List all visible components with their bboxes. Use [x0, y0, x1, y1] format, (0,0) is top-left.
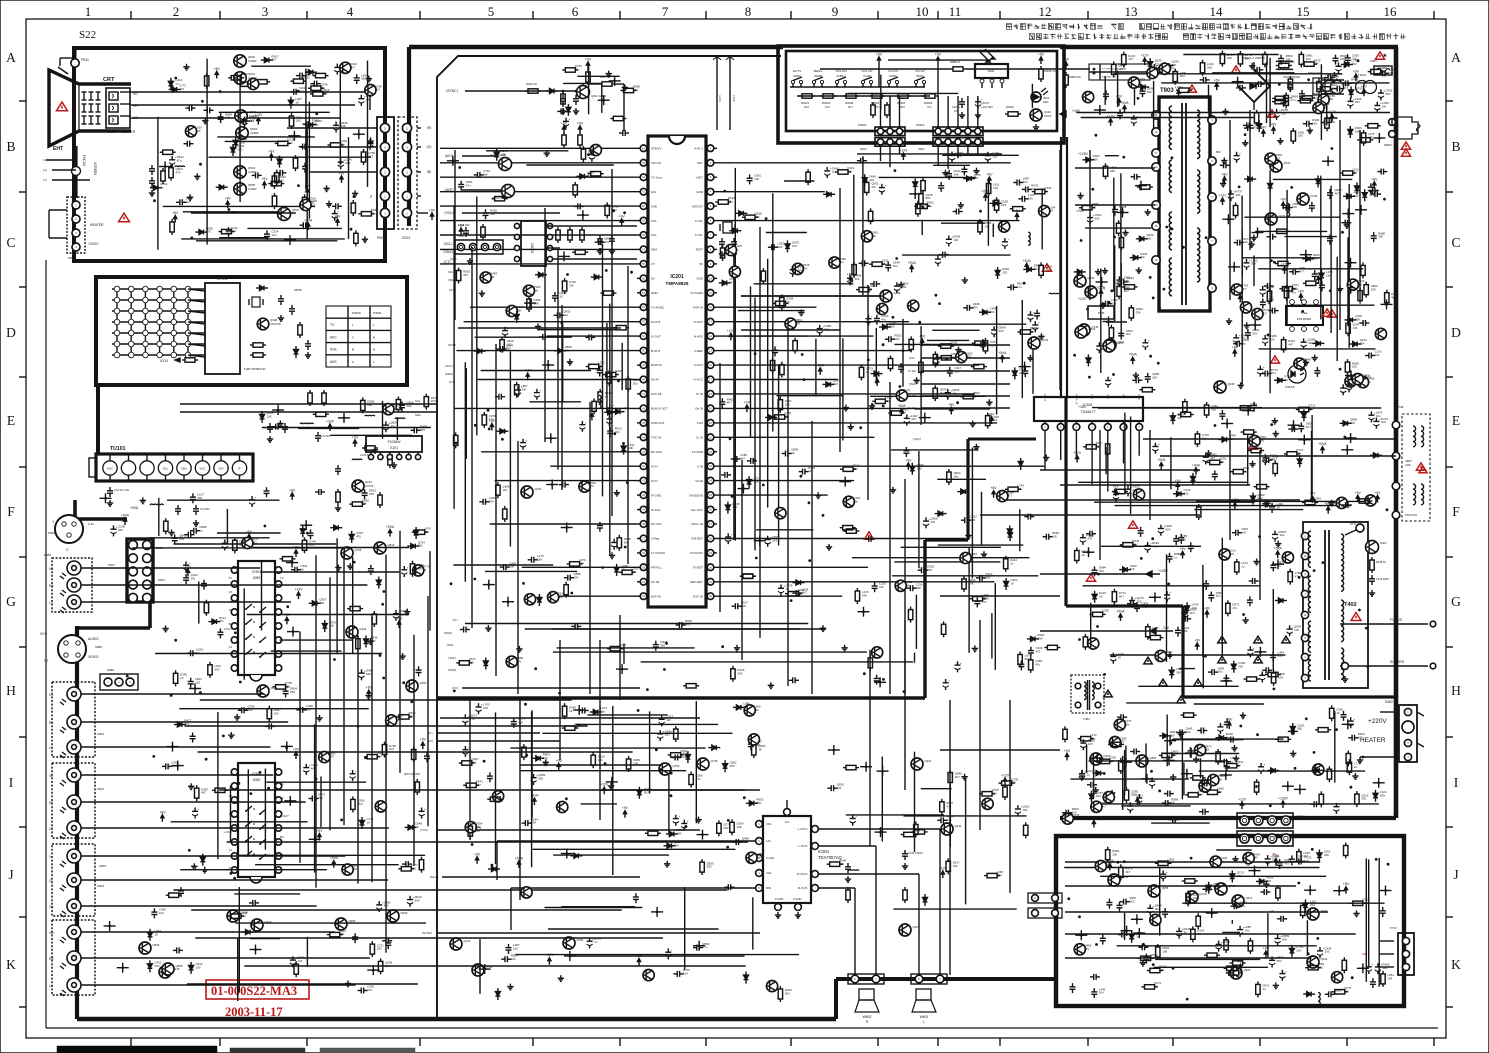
svg-text:2K2: 2K2	[772, 538, 778, 542]
svg-text:+5V: +5V	[1374, 491, 1381, 495]
supply	[1160, 465, 1162, 470]
svg-text:47u: 47u	[1232, 606, 1237, 610]
svg-text:25V: 25V	[1157, 71, 1162, 75]
speaker connector P603	[848, 974, 884, 984]
svg-text:C: C	[352, 335, 355, 339]
resistor	[361, 212, 371, 216]
junction	[1349, 261, 1352, 264]
supply	[1373, 184, 1375, 189]
aux connector pair 1	[1028, 893, 1062, 903]
svg-text:50V: 50V	[489, 499, 494, 503]
supply	[337, 221, 339, 226]
ground	[1266, 500, 1268, 503]
wire	[750, 286, 752, 437]
svg-text:1u: 1u	[1368, 380, 1372, 384]
wire	[987, 178, 989, 246]
svg-text:SDA: SDA	[651, 248, 657, 252]
wire	[1196, 500, 1373, 502]
transistor	[1347, 279, 1358, 290]
wire	[852, 557, 1030, 559]
IC201 pin 43	[640, 449, 647, 456]
svg-text:1W: 1W	[974, 176, 979, 180]
capacitor	[1203, 456, 1209, 458]
capacitor	[299, 73, 301, 79]
svg-text:+9V: +9V	[1180, 547, 1187, 551]
capacitor	[1374, 191, 1376, 197]
wire	[743, 335, 873, 337]
svg-text:4K7: 4K7	[1101, 804, 1107, 808]
svg-text:33K: 33K	[1371, 287, 1376, 291]
diode D448	[294, 350, 299, 355]
capacitor	[817, 328, 823, 330]
ground	[326, 185, 328, 188]
capacitor	[725, 536, 731, 538]
capacitor	[557, 312, 559, 318]
svg-text:33K: 33K	[1314, 62, 1319, 66]
IC201 pin 56	[640, 261, 647, 268]
junction	[563, 255, 566, 258]
svg-text:100: 100	[1358, 735, 1363, 739]
svg-text:103: 103	[804, 105, 809, 109]
wire	[886, 323, 1026, 325]
svg-text:2K2: 2K2	[598, 364, 604, 368]
svg-text:1u: 1u	[735, 248, 739, 252]
svg-text:1u: 1u	[1241, 565, 1245, 569]
wire	[481, 370, 591, 372]
wire	[754, 298, 756, 551]
capacitor	[1340, 387, 1346, 389]
svg-text:G: G	[1451, 594, 1461, 609]
wire	[206, 59, 208, 245]
switch CH DN	[887, 80, 890, 83]
diode	[1139, 236, 1144, 241]
svg-text:103: 103	[1088, 742, 1093, 746]
svg-text:100: 100	[507, 342, 512, 346]
svg-text:L-OUT+: L-OUT+	[798, 827, 809, 831]
resistor	[933, 354, 937, 364]
svg-text:10u: 10u	[1382, 966, 1387, 970]
resistor	[1122, 55, 1126, 65]
capacitor	[567, 575, 569, 581]
svg-text:25V: 25V	[318, 796, 323, 800]
ground	[972, 421, 974, 424]
capacitor	[949, 154, 955, 156]
wire	[937, 478, 986, 480]
svg-text:SC 5F: SC 5F	[651, 580, 660, 584]
svg-text:+: +	[569, 117, 571, 121]
resistor	[1150, 635, 1160, 639]
ground	[487, 625, 489, 628]
svg-text:⟨TVC⟩: ⟨TVC⟩	[420, 828, 428, 832]
junction	[551, 483, 554, 486]
svg-text:SCREEN: SCREEN	[1390, 660, 1405, 664]
resistor	[974, 364, 984, 368]
diode	[1231, 664, 1236, 669]
P3904 pin	[887, 128, 893, 134]
resistor	[855, 591, 859, 601]
IC201 pin 33	[640, 593, 647, 600]
junction	[1225, 774, 1228, 777]
IC206 pin	[514, 223, 519, 228]
capacitor	[1110, 656, 1116, 658]
svg-text:P: P	[918, 977, 920, 981]
signal return bus	[437, 696, 925, 699]
resistor	[1115, 489, 1125, 493]
svg-text:10u: 10u	[1376, 414, 1381, 418]
svg-text:47u: 47u	[696, 777, 701, 781]
junction	[759, 539, 762, 542]
wire	[1078, 481, 1247, 483]
IC201 pin 26	[707, 506, 714, 513]
resistor	[570, 562, 580, 566]
resistor	[302, 197, 306, 207]
resistor	[986, 416, 990, 426]
capacitor	[1245, 332, 1251, 334]
svg-text:1u: 1u	[1044, 189, 1048, 193]
diode	[1027, 267, 1032, 272]
svg-text:+12V: +12V	[600, 783, 609, 787]
svg-text:560: 560	[1357, 282, 1362, 286]
resistor	[350, 606, 360, 610]
grid tick	[999, 11, 1001, 19]
svg-text:V3: V3	[229, 590, 233, 594]
capacitor	[333, 124, 339, 126]
resistor	[1140, 185, 1150, 189]
svg-text:4K7: 4K7	[950, 344, 956, 348]
svg-text:+8V: +8V	[304, 184, 311, 188]
junction	[1023, 365, 1026, 368]
wire	[733, 254, 735, 540]
svg-text:⟨SCL⟩: ⟨SCL⟩	[443, 242, 452, 246]
ground	[1045, 455, 1047, 458]
resistor	[215, 788, 225, 792]
svg-text:10u: 10u	[563, 313, 568, 317]
junction	[1100, 281, 1103, 284]
svg-text:50V: 50V	[674, 843, 679, 847]
svg-text:1K: 1K	[869, 287, 873, 291]
vert IC feed bus	[968, 438, 1036, 441]
svg-text:50V: 50V	[1251, 262, 1256, 266]
svg-text:103: 103	[825, 105, 830, 109]
IC901 body	[238, 561, 275, 675]
tuner pin stubs	[110, 455, 240, 461]
ground	[1223, 158, 1225, 161]
svg-text:+8V: +8V	[1221, 172, 1228, 176]
ground	[624, 84, 626, 87]
IC902 pin left	[231, 839, 237, 845]
resistor	[1093, 612, 1103, 616]
capacitor	[1341, 714, 1347, 716]
svg-text:33K: 33K	[632, 570, 637, 574]
cap C902A	[1287, 84, 1293, 86]
resistor	[562, 281, 566, 291]
resistor	[975, 341, 985, 345]
junction	[1303, 438, 1306, 441]
svg-text:L3SA: L3SA	[732, 95, 736, 102]
capacitor	[947, 370, 953, 372]
transistor	[1352, 374, 1363, 385]
cap C117	[335, 468, 341, 470]
svg-text:100: 100	[917, 466, 922, 470]
IC201 pin 19	[707, 405, 714, 412]
svg-text:2K2: 2K2	[471, 761, 477, 765]
capacitor	[1378, 92, 1384, 94]
+5V ir	[937, 59, 939, 64]
res R989	[1064, 75, 1068, 85]
ground	[481, 290, 483, 293]
svg-text:58V: 58V	[1216, 150, 1221, 154]
svg-text:1V: 1V	[1362, 952, 1366, 956]
wire	[219, 237, 268, 239]
S702 upper row	[1237, 813, 1293, 828]
inductor	[599, 395, 601, 399]
svg-text:+: +	[884, 183, 886, 187]
svg-text:L3: L3	[49, 601, 53, 605]
svg-text:560: 560	[660, 643, 665, 647]
svg-text:11: 11	[949, 4, 962, 19]
svg-text:DRMC: DRMC	[1384, 143, 1392, 147]
svg-text:⟨AV1⟩: ⟨AV1⟩	[448, 656, 456, 660]
IC901 pin right	[275, 623, 281, 629]
supply	[1262, 132, 1264, 137]
diode	[312, 601, 317, 606]
anode bracket	[58, 67, 68, 74]
IC201 pin 45	[640, 420, 647, 427]
warning triangle	[1042, 264, 1051, 271]
svg-text:+: +	[612, 404, 614, 408]
capacitor	[241, 707, 243, 713]
capacitor	[598, 239, 600, 245]
svg-text:C1071: C1071	[952, 105, 960, 109]
IC902 pin right	[275, 797, 281, 803]
capacitor	[1113, 494, 1119, 496]
wire ee1	[546, 225, 637, 227]
resistor	[222, 229, 232, 233]
IC902 pin left	[231, 783, 237, 789]
diode	[1004, 582, 1009, 587]
capacitor	[1348, 720, 1354, 722]
resistor	[581, 149, 585, 159]
gnd tun2	[195, 520, 197, 523]
svg-text:H-AFD: H-AFD	[694, 334, 704, 338]
svg-text:4K7: 4K7	[377, 754, 383, 758]
ground	[1228, 318, 1230, 321]
svg-text:104: 104	[588, 152, 593, 156]
resistor	[1364, 285, 1368, 295]
S201 pin	[402, 208, 411, 217]
transistor	[1282, 552, 1293, 563]
inductor	[1028, 232, 1030, 236]
capacitor	[1045, 534, 1047, 540]
wire	[526, 164, 613, 166]
supply	[333, 863, 335, 868]
resistor	[482, 415, 486, 425]
transistor	[548, 592, 559, 603]
diode	[364, 639, 369, 644]
svg-text:1u: 1u	[615, 372, 619, 376]
connector S201	[398, 117, 417, 229]
svg-text:100: 100	[1046, 268, 1051, 272]
capacitor	[424, 755, 430, 757]
diode	[1141, 85, 1146, 90]
svg-text:10K: 10K	[362, 502, 367, 506]
svg-text:D403: D403	[1380, 541, 1387, 545]
svg-text:P501: P501	[377, 236, 385, 240]
transistor	[300, 199, 311, 210]
wire	[243, 588, 245, 680]
svg-text:I: I	[9, 775, 14, 790]
junction	[1121, 211, 1124, 214]
svg-text:TEST: TEST	[695, 248, 703, 252]
wire	[458, 327, 621, 329]
svg-text:+: +	[1148, 339, 1150, 343]
svg-text:S902: S902	[97, 787, 104, 791]
ground	[1104, 268, 1106, 271]
transistor	[1109, 737, 1120, 748]
svg-text:VIDEO: VIDEO	[88, 655, 99, 659]
capacitor	[1236, 240, 1238, 246]
svg-text:3CB5-1: 3CB5-1	[836, 74, 846, 78]
diode D445	[260, 286, 265, 291]
diode	[1268, 184, 1273, 189]
wire	[1114, 73, 1343, 75]
tuner pin SCL	[158, 461, 172, 475]
svg-text:25V: 25V	[537, 557, 542, 561]
capacitor	[765, 539, 771, 541]
wire cluster mid right mid	[869, 300, 1045, 429]
IC201 pin 58	[640, 232, 647, 239]
svg-text:47u 50V: 47u 50V	[321, 434, 331, 438]
wire	[601, 85, 603, 113]
svg-text:4K7: 4K7	[756, 855, 762, 859]
capacitor	[482, 499, 484, 505]
svg-text:K: K	[1451, 957, 1461, 972]
res R204	[528, 89, 538, 93]
diode	[608, 410, 613, 415]
junction	[1227, 218, 1230, 221]
transistor Q607	[1270, 160, 1282, 172]
svg-text:C: C	[6, 235, 15, 250]
resistor	[316, 73, 326, 77]
resistor	[591, 172, 601, 176]
thermistor RT901	[1313, 78, 1325, 95]
svg-text:+220V: +220V	[1368, 718, 1387, 725]
svg-text:P904: P904	[158, 578, 165, 582]
svg-text:1K: 1K	[1197, 932, 1201, 936]
diode	[883, 325, 888, 330]
supply	[1026, 265, 1028, 270]
svg-text:H-VCC: H-VCC	[694, 378, 704, 382]
svg-text:+: +	[468, 745, 470, 749]
svg-text:1K: 1K	[415, 825, 419, 829]
cap C101	[107, 490, 113, 492]
IC501 pin 5	[1104, 424, 1111, 431]
IC902 pin right	[275, 853, 281, 859]
warning triangle black	[1159, 679, 1167, 686]
junction	[1226, 422, 1229, 425]
cathode KB	[109, 116, 118, 124]
svg-text:1W: 1W	[1264, 82, 1269, 86]
svg-text:P-GND: P-GND	[793, 897, 801, 901]
supply	[1076, 458, 1078, 463]
vert coil	[1413, 426, 1416, 431]
svg-text:G: G	[6, 594, 16, 609]
svg-text:+12V: +12V	[939, 867, 948, 871]
resistor	[1013, 207, 1023, 211]
IC901 pin left	[231, 567, 237, 573]
diode	[219, 185, 224, 190]
ground	[1305, 359, 1307, 362]
svg-text:104: 104	[297, 959, 302, 963]
junction	[602, 99, 605, 102]
svg-text:1: 1	[373, 360, 375, 364]
wire	[1106, 321, 1127, 323]
svg-text:S22: S22	[79, 29, 96, 41]
svg-text:+9V: +9V	[622, 806, 629, 810]
capacitor	[302, 222, 304, 228]
svg-text:3+PV: 3+PV	[718, 95, 722, 102]
junction	[1305, 253, 1308, 256]
svg-text:3300A: 3300A	[793, 74, 801, 78]
svg-text:IF IN: IF IN	[651, 464, 658, 468]
IC901 pin left	[231, 609, 237, 615]
svg-text:KSC5: KSC5	[1044, 114, 1052, 118]
svg-text:47u: 47u	[1213, 885, 1218, 889]
svg-text:560: 560	[361, 77, 366, 81]
capacitor	[945, 392, 951, 394]
capacitor	[515, 389, 521, 391]
svg-text:1u: 1u	[832, 170, 836, 174]
svg-text:4K7: 4K7	[740, 457, 746, 461]
supply	[1115, 491, 1117, 496]
IC206 24C08 eeprom	[521, 221, 546, 266]
junction	[1256, 231, 1259, 234]
svg-text:+5VA: +5VA	[897, 404, 906, 408]
svg-text:P531: P531	[81, 58, 89, 62]
diode	[264, 58, 269, 63]
svg-text:Q253: Q253	[535, 487, 542, 491]
svg-text:W601: W601	[920, 1015, 929, 1019]
wire	[772, 193, 774, 431]
svg-text:2K2: 2K2	[1133, 488, 1139, 492]
opto pin	[1314, 300, 1319, 305]
svg-text:Q133: Q133	[464, 939, 471, 943]
transistor	[1128, 77, 1139, 88]
warning photo	[1271, 356, 1280, 363]
resistor	[868, 211, 872, 221]
svg-text:1K: 1K	[295, 100, 299, 104]
junction	[1327, 160, 1330, 163]
grid tick	[419, 11, 421, 19]
connector P3904	[875, 127, 905, 136]
wire	[157, 117, 159, 250]
capacitor	[183, 577, 189, 579]
wire	[196, 240, 338, 242]
svg-text:TMPA8829: TMPA8829	[666, 281, 689, 286]
svg-text:+9V: +9V	[1014, 209, 1021, 213]
jack R2	[67, 795, 81, 809]
junction	[1087, 551, 1090, 554]
diode	[1251, 496, 1256, 501]
resistor	[1368, 124, 1378, 128]
resistor	[793, 341, 797, 351]
svg-text:16: 16	[1384, 4, 1398, 19]
capacitor	[183, 564, 189, 566]
wire	[1101, 545, 1201, 547]
resistor	[865, 182, 869, 192]
wire	[181, 238, 345, 240]
photo coupler IC303	[1288, 365, 1306, 383]
